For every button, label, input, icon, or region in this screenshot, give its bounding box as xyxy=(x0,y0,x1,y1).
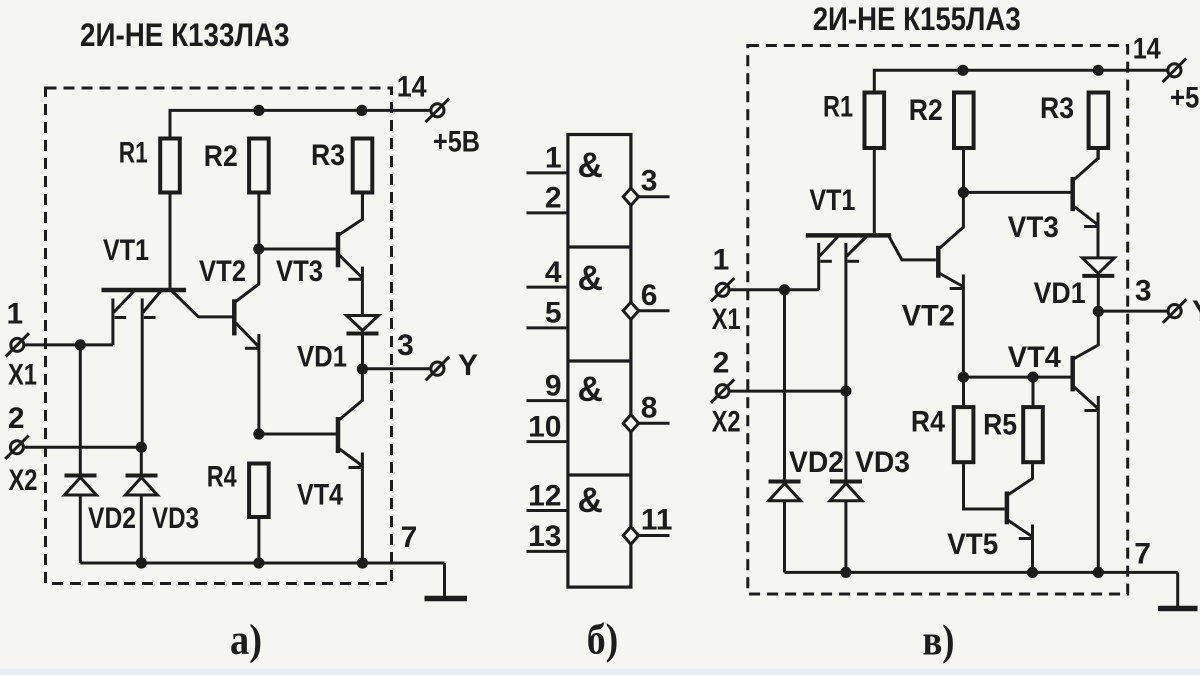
wire VT3 base v xyxy=(963,191,1070,194)
svg-text:3: 3 xyxy=(397,329,414,362)
svg-text:10: 10 xyxy=(528,410,561,443)
gate 2 & symbol xyxy=(578,259,603,298)
resistor R3 v xyxy=(1089,93,1109,149)
svg-text:R2: R2 xyxy=(909,94,943,127)
svg-text:X2: X2 xyxy=(9,464,38,497)
svg-text:&: & xyxy=(578,146,603,185)
transistor VT2 collector xyxy=(236,249,259,302)
wire R2 lead down xyxy=(257,193,260,250)
transistor VT4 collector xyxy=(340,369,363,420)
label VD1 xyxy=(297,341,347,374)
IC body box xyxy=(568,135,631,588)
resistor R2 xyxy=(249,139,269,193)
svg-text:VT5: VT5 xyxy=(947,528,998,561)
wire R1 lead to VT1 base v xyxy=(873,148,876,233)
node VT4-gnd xyxy=(357,557,368,568)
gate divider 1 xyxy=(568,245,631,248)
wire R4 lead up v xyxy=(962,377,965,407)
svg-text:4: 4 xyxy=(545,256,562,289)
svg-text:2: 2 xyxy=(545,182,562,215)
svg-text:2И-НЕ К133ЛА3: 2И-НЕ К133ЛА3 xyxy=(80,17,290,53)
pin 3 label xyxy=(641,165,658,198)
svg-text:VD2: VD2 xyxy=(789,446,844,479)
label X1 v xyxy=(712,303,741,336)
pin X1 terminal v xyxy=(711,278,734,301)
transistor VT1 collector xyxy=(172,291,232,317)
label Y a xyxy=(458,349,478,382)
svg-text:VT2: VT2 xyxy=(902,300,955,333)
resistor R3 xyxy=(353,139,373,193)
gate divider 3 xyxy=(568,473,631,476)
label R5 v xyxy=(983,409,1017,442)
pin 3 output diamond xyxy=(623,188,638,205)
svg-text:&: & xyxy=(578,259,603,298)
label VT4 v xyxy=(1008,341,1061,374)
wire R1 lead to VT1 base xyxy=(169,193,172,289)
svg-text:+5В: +5В xyxy=(433,126,480,159)
transistor VT5 collector v xyxy=(1008,462,1032,494)
transistor VT4 emitter v xyxy=(1074,387,1098,572)
pin 6 label xyxy=(641,279,658,312)
svg-text:R3: R3 xyxy=(311,139,345,172)
label R2 v xyxy=(909,94,943,127)
label R3 v xyxy=(1040,92,1074,125)
svg-text:X1: X1 xyxy=(8,358,37,391)
diode VD3 v xyxy=(830,391,862,572)
label VT2 v xyxy=(902,300,955,333)
pin 10 label xyxy=(528,410,561,443)
svg-text:14: 14 xyxy=(1133,32,1161,65)
caption a) xyxy=(230,617,262,664)
label +5V v xyxy=(1170,81,1200,114)
svg-text:3: 3 xyxy=(641,165,658,198)
svg-text:3: 3 xyxy=(1135,274,1152,307)
transistor VT5 emitter v xyxy=(1008,521,1032,573)
svg-text:1: 1 xyxy=(713,244,730,277)
transistor VT3 collector v xyxy=(1074,148,1098,180)
svg-text:1: 1 xyxy=(545,142,562,175)
diode VD2 xyxy=(64,345,96,563)
pin 14 label a xyxy=(397,71,427,104)
svg-text:6: 6 xyxy=(641,279,658,312)
pin 14 label v xyxy=(1133,32,1161,65)
transistor VT3 emitter v xyxy=(1074,207,1098,258)
transistor VT4 collector v xyxy=(1074,311,1098,358)
label VT2 xyxy=(199,255,246,288)
wire input X2 a xyxy=(24,446,143,449)
transistor VT3 bar xyxy=(336,232,341,267)
label R3 xyxy=(311,139,345,172)
pin 5 stub line xyxy=(527,326,568,329)
label VT5 v xyxy=(947,528,998,561)
pin 14 terminal v xyxy=(1163,59,1187,83)
node VT5-gnd v xyxy=(1027,567,1038,578)
transistor VT4 bar xyxy=(336,417,341,453)
svg-text:VD3: VD3 xyxy=(152,502,199,535)
pin 13 label xyxy=(528,520,561,553)
transistor VT2 bar v xyxy=(936,246,941,278)
node rail-R2 a xyxy=(253,105,264,116)
pin 1 label v xyxy=(713,244,730,277)
transistor VT2 bar xyxy=(232,299,237,335)
node rail-R3 a xyxy=(356,105,367,116)
gate divider 2 xyxy=(568,359,631,362)
transistor VT1 bar v xyxy=(806,233,891,238)
svg-text:VD1: VD1 xyxy=(1034,277,1086,310)
transistor VT3 emitter xyxy=(340,255,363,315)
pin X1 terminal a xyxy=(6,333,29,356)
pin 7 label v xyxy=(1134,538,1151,571)
resistor R4 v xyxy=(954,407,974,462)
pin 2 label a xyxy=(8,402,25,435)
pin 3 label v xyxy=(1135,274,1152,307)
pin 11 label xyxy=(641,504,673,537)
svg-text:в): в) xyxy=(923,618,955,665)
label VT3 v xyxy=(1008,211,1059,244)
wire ground bus a xyxy=(80,562,444,565)
pin 9 stub line xyxy=(527,399,568,402)
resistor R1 xyxy=(160,139,180,193)
svg-text:R3: R3 xyxy=(1040,92,1074,125)
ground symbol v xyxy=(1158,572,1198,608)
label X2 a xyxy=(9,464,38,497)
pin 4 label xyxy=(545,256,562,289)
label +5V a xyxy=(433,126,480,159)
svg-text:Y: Y xyxy=(458,349,478,382)
bottom edge tint strip xyxy=(0,669,1200,675)
pin 14 terminal a xyxy=(426,99,450,123)
wire R4 to VT5 base v xyxy=(964,462,1005,509)
wire R3 lead down xyxy=(361,193,364,221)
pin 3 terminal a xyxy=(426,357,450,381)
gate 4 & symbol xyxy=(578,481,603,520)
svg-text:VT1: VT1 xyxy=(103,234,149,267)
transistor VT1 bar xyxy=(102,288,187,293)
wire VT4 base v xyxy=(963,376,1070,379)
svg-text:VD2: VD2 xyxy=(88,502,136,535)
wire ground bus v xyxy=(785,571,1178,574)
svg-text:б): б) xyxy=(587,617,619,664)
svg-text:7: 7 xyxy=(1134,538,1151,571)
svg-text:VT4: VT4 xyxy=(297,478,343,511)
transistor VT1 emitter 2 xyxy=(142,291,161,447)
label VT1 v xyxy=(809,184,855,217)
resistor R4 xyxy=(249,464,269,518)
transistor VT4 emitter xyxy=(340,449,363,563)
pin 8 output line xyxy=(638,422,670,425)
pin 3 output line xyxy=(638,195,670,198)
node VT4 base xyxy=(253,428,264,439)
pin 6 output diamond xyxy=(623,302,638,319)
pin 8 output diamond xyxy=(623,415,638,432)
title K155LA3 xyxy=(813,1,1021,37)
svg-text:1: 1 xyxy=(6,298,23,331)
svg-text:R1: R1 xyxy=(823,91,853,124)
transistor VT1 emitter 1 v xyxy=(819,237,838,290)
label X1 a xyxy=(8,358,37,391)
pin 4 stub line xyxy=(527,286,568,289)
wire output v xyxy=(1098,310,1168,313)
caption v) xyxy=(923,618,955,665)
label R4 v xyxy=(911,406,945,439)
label R2 xyxy=(204,140,238,173)
node rail-R3 v xyxy=(1093,65,1104,76)
svg-text:11: 11 xyxy=(641,504,673,537)
pin 11 output diamond xyxy=(623,527,638,544)
node R2-VT3 base xyxy=(253,243,264,254)
svg-text:VT2: VT2 xyxy=(199,255,246,288)
pin 6 output line xyxy=(638,309,670,312)
wire input X2 v xyxy=(729,390,846,393)
label VD2 v xyxy=(789,446,844,479)
svg-text:R4: R4 xyxy=(911,406,945,439)
caption b) xyxy=(587,617,619,664)
svg-text:2И-НЕ К155ЛА3: 2И-НЕ К155ЛА3 xyxy=(813,1,1021,37)
label R4 xyxy=(207,461,237,494)
node VT2-VT4 base v xyxy=(958,372,969,383)
label VT3 xyxy=(276,255,323,288)
label R1 xyxy=(119,137,148,170)
svg-text:5: 5 xyxy=(545,297,562,330)
wire input X1 v xyxy=(729,288,818,291)
node VT4-gnd v xyxy=(1093,567,1104,578)
svg-text:2: 2 xyxy=(8,402,25,435)
node rail-R2 v xyxy=(957,65,968,76)
diode VD2 v xyxy=(769,290,801,573)
svg-text:а): а) xyxy=(230,617,262,664)
svg-text:8: 8 xyxy=(641,391,658,424)
wire +5V rail a xyxy=(170,110,431,138)
node R5 top v xyxy=(1027,372,1038,383)
wire R2 lead down v xyxy=(962,148,965,192)
node VD3-gnd xyxy=(136,557,147,568)
diode VD1 xyxy=(347,316,379,370)
pin X2 terminal v xyxy=(711,379,734,402)
pin 9 label xyxy=(545,369,562,402)
wire output a xyxy=(362,367,430,370)
pin 3 label a xyxy=(397,329,414,362)
pin 1 label xyxy=(545,142,562,175)
svg-text:R2: R2 xyxy=(204,140,238,173)
svg-text:R1: R1 xyxy=(119,137,148,170)
node output v xyxy=(1093,306,1104,317)
ground symbol a xyxy=(425,563,468,599)
svg-text:VT3: VT3 xyxy=(1008,211,1059,244)
pin X2 terminal a xyxy=(5,436,28,459)
pin 5 label xyxy=(545,297,562,330)
pin 11 output line xyxy=(638,534,670,537)
label VD1 v xyxy=(1034,277,1086,310)
pin 10 stub line xyxy=(527,440,568,443)
transistor VT1 collector v xyxy=(889,237,936,260)
diode VD3 xyxy=(125,447,157,563)
wire +5V rail v xyxy=(874,70,1167,92)
pin 12 stub line xyxy=(527,509,568,512)
transistor VT2 collector v xyxy=(940,192,964,248)
label Y v xyxy=(1192,295,1200,328)
svg-text:7: 7 xyxy=(401,521,418,554)
label X2 v xyxy=(712,406,741,439)
svg-text:VD3: VD3 xyxy=(855,446,910,479)
pin 8 label xyxy=(641,391,658,424)
pin 7 label a xyxy=(401,521,418,554)
svg-text:2: 2 xyxy=(713,346,730,379)
svg-text:+5В: +5В xyxy=(1170,81,1200,114)
label VT1 xyxy=(103,234,149,267)
pin 1 label a xyxy=(6,298,23,331)
node X1-VD2 v xyxy=(779,284,790,295)
label VD3 v xyxy=(855,446,910,479)
label VD3 xyxy=(152,502,199,535)
pin 2 stub line xyxy=(527,211,568,214)
node X2-VD3 v xyxy=(840,386,851,397)
node output a xyxy=(357,363,368,374)
node R2-VT3 base v xyxy=(958,187,969,198)
transistor VT5 bar v xyxy=(1005,492,1010,525)
resistor R2 v xyxy=(954,93,974,149)
transistor VT3 collector xyxy=(340,193,363,235)
transistor VT1 emitter 2 v xyxy=(846,237,867,392)
wire R4 lead down xyxy=(257,517,260,563)
wire VT3 base xyxy=(259,248,336,251)
svg-text:13: 13 xyxy=(528,520,561,553)
transistor VT2 emitter v xyxy=(940,274,964,378)
svg-text:&: & xyxy=(578,370,603,409)
svg-text:Y: Y xyxy=(1192,295,1200,328)
resistor R1 v xyxy=(865,93,885,149)
pin 12 label xyxy=(528,479,561,512)
gate 1 & symbol xyxy=(578,146,603,185)
transistor VT3 bar v xyxy=(1070,177,1075,211)
svg-text:X1: X1 xyxy=(712,303,741,336)
svg-text:VT4: VT4 xyxy=(1008,341,1061,374)
svg-text:VT1: VT1 xyxy=(809,184,855,217)
wire R5 lead up v xyxy=(1032,377,1035,407)
wire input X1 a xyxy=(24,343,113,346)
svg-text:VD1: VD1 xyxy=(297,341,347,374)
svg-text:12: 12 xyxy=(528,479,561,512)
node X2-VD3 xyxy=(136,442,147,453)
node VD3-gnd v xyxy=(840,567,851,578)
pin 13 stub line xyxy=(527,550,568,553)
dashed boundary box v xyxy=(748,46,1128,595)
svg-text:R4: R4 xyxy=(207,461,237,494)
transistor VT4 bar v xyxy=(1070,356,1075,392)
label R1 v xyxy=(823,91,853,124)
svg-text:14: 14 xyxy=(397,71,427,104)
transistor VT2 emitter xyxy=(236,323,259,434)
wire R3 lead down v xyxy=(1097,148,1100,160)
svg-text:9: 9 xyxy=(545,369,562,402)
wire VT4 base xyxy=(259,433,336,436)
pin 2 label v xyxy=(713,346,730,379)
gate 3 & symbol xyxy=(578,370,603,409)
svg-text:VT3: VT3 xyxy=(276,255,323,288)
svg-text:R5: R5 xyxy=(983,409,1017,442)
transistor VT1 emitter 1 xyxy=(113,291,134,345)
diode VD1 v xyxy=(1082,258,1114,311)
resistor R5 v xyxy=(1023,407,1043,462)
pin 1 stub line xyxy=(527,171,568,174)
svg-text:&: & xyxy=(578,481,603,520)
svg-text:X2: X2 xyxy=(712,406,741,439)
label VT4 xyxy=(297,478,343,511)
pin 2 label xyxy=(545,182,562,215)
dashed boundary box a xyxy=(46,88,392,584)
title K133LA3 xyxy=(80,17,290,53)
node X1-VD2 xyxy=(75,339,86,350)
label VD2 xyxy=(88,502,136,535)
node R4-gnd xyxy=(253,557,264,568)
pin 3 terminal v xyxy=(1163,299,1187,323)
